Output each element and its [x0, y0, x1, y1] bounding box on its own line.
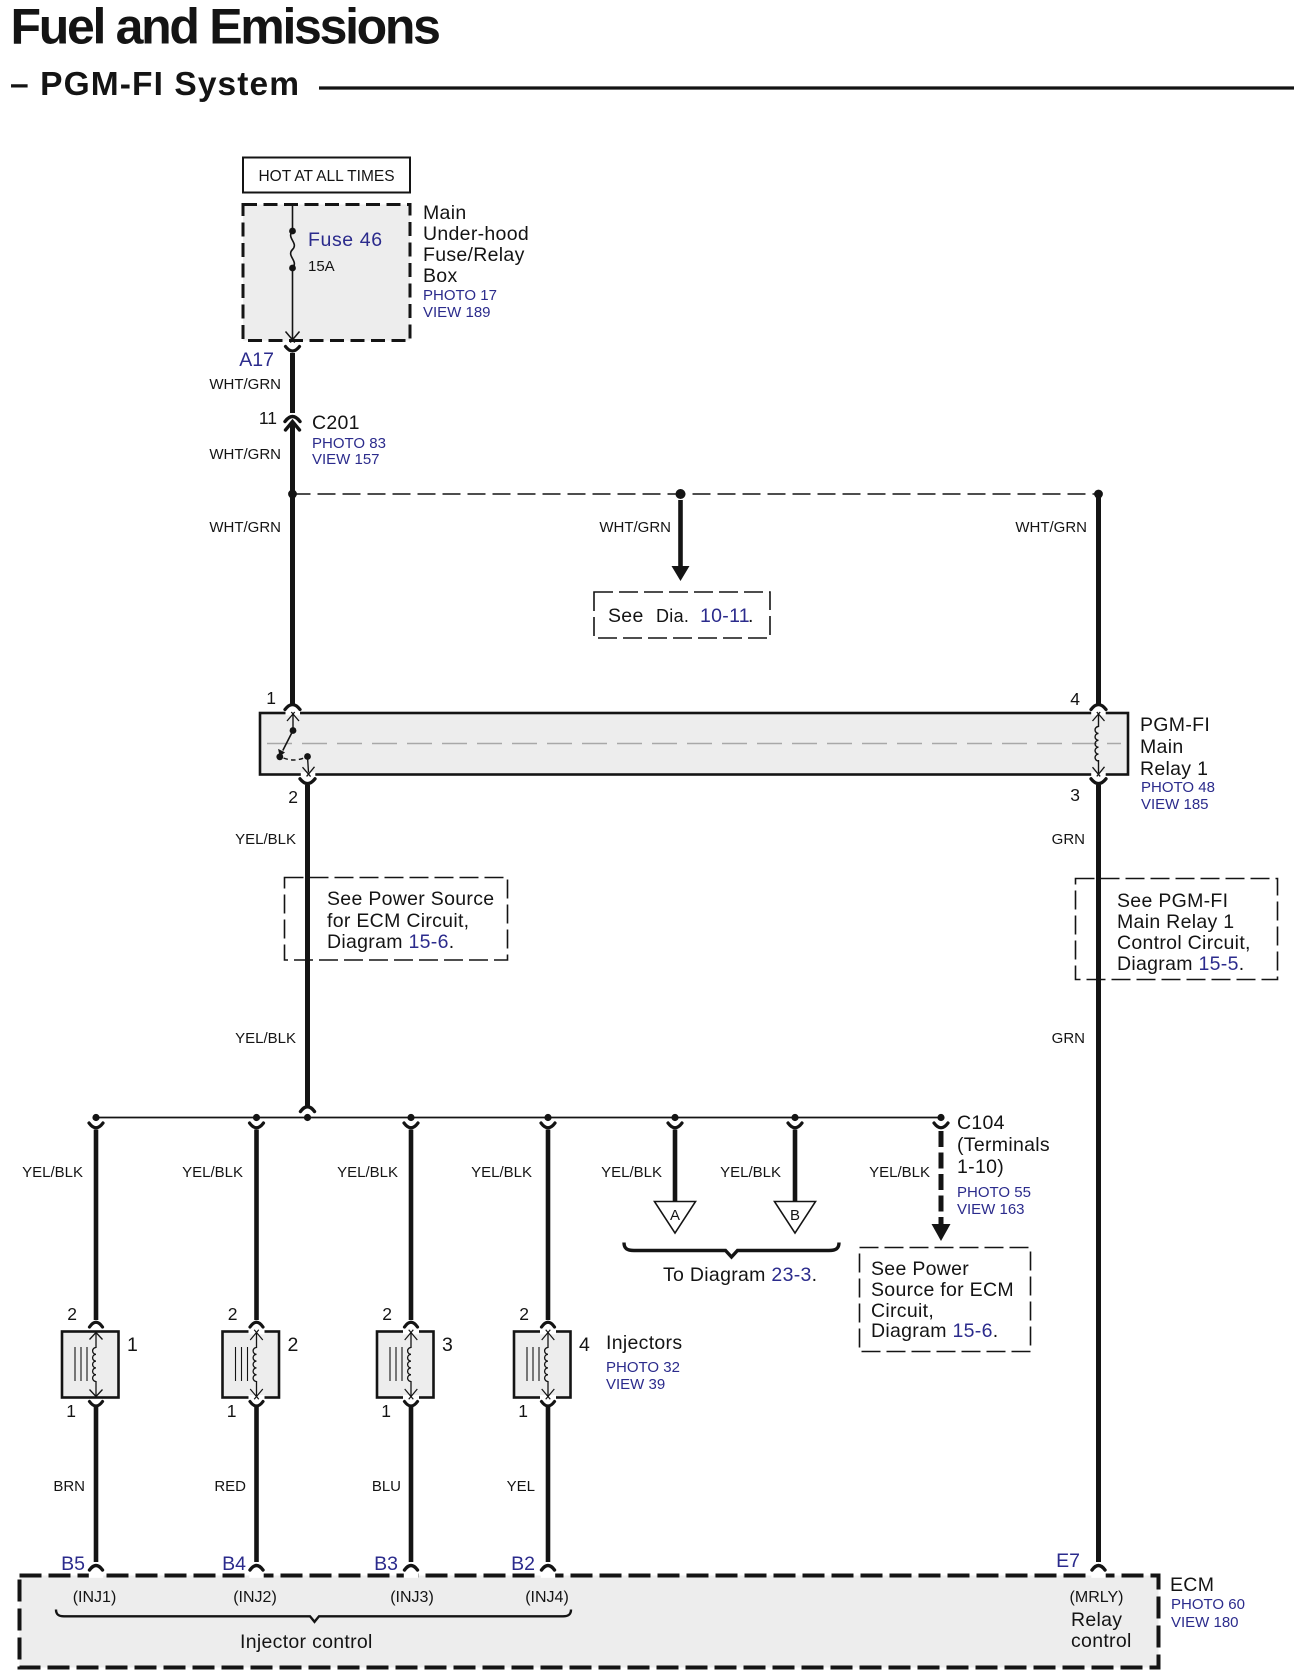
svg-text:YEL/BLK: YEL/BLK	[471, 1164, 532, 1181]
HOT AT ALL TIMES box	[243, 158, 410, 193]
ECM border notches	[89, 1573, 1106, 1578]
svg-text:PHOTO 48: PHOTO 48	[1141, 779, 1215, 796]
junction node	[288, 490, 297, 499]
terminal cup B3	[405, 1566, 418, 1571]
bus node C104	[937, 1114, 944, 1121]
svg-text:See PGM-FI: See PGM-FI	[1117, 890, 1228, 912]
bus node inj4	[544, 1114, 551, 1121]
svg-text:Circuit,: Circuit,	[871, 1300, 934, 1322]
bus node inj3	[407, 1114, 414, 1121]
svg-text:YEL/BLK: YEL/BLK	[235, 831, 296, 848]
svg-text:E7: E7	[1056, 1550, 1080, 1572]
svg-text:Fuel and Emissions: Fuel and Emissions	[11, 0, 440, 55]
wire relay pin3 to ECM E7	[1096, 785, 1101, 1562]
svg-text:Relay: Relay	[1071, 1609, 1122, 1631]
svg-text:VIEW 189: VIEW 189	[423, 304, 491, 321]
svg-text:VIEW 157: VIEW 157	[312, 451, 380, 468]
svg-text:Dia.: Dia.	[656, 606, 689, 626]
svg-text:B2: B2	[511, 1553, 535, 1575]
svg-text:Diagram 15-6.: Diagram 15-6.	[327, 931, 454, 953]
arrow to See Dia 10-11	[672, 500, 690, 581]
svg-text:PHOTO 55: PHOTO 55	[957, 1184, 1031, 1201]
See Power Source for ECM box (left)	[285, 878, 508, 961]
terminal cup drop inj4	[541, 1123, 555, 1128]
svg-text:PGM-FI: PGM-FI	[1140, 714, 1210, 736]
bus node A	[671, 1114, 678, 1121]
terminal cup B2	[542, 1566, 555, 1571]
svg-text:1: 1	[518, 1401, 528, 1421]
svg-text:PHOTO 32: PHOTO 32	[606, 1359, 680, 1376]
wire C201 to relay pin 1	[290, 424, 295, 704]
terminal cup E7	[1092, 1566, 1105, 1571]
svg-text:(INJ3): (INJ3)	[390, 1589, 434, 1606]
svg-text:See Power: See Power	[871, 1258, 969, 1280]
svg-text:2: 2	[228, 1304, 238, 1324]
svg-text:To Diagram 23-3.: To Diagram 23-3.	[663, 1264, 817, 1286]
injector 3	[377, 1322, 434, 1400]
Relay control label	[1071, 1609, 1132, 1652]
svg-text:(INJ4): (INJ4)	[525, 1589, 569, 1606]
svg-text:Main: Main	[1140, 736, 1183, 758]
relay contact pin2 arrow	[303, 753, 315, 777]
svg-text:BRN: BRN	[53, 1478, 85, 1495]
svg-text:A17: A17	[239, 349, 274, 371]
bus node main	[304, 1114, 311, 1121]
terminal cup relay pin 1	[285, 705, 300, 710]
injector 1	[62, 1322, 119, 1397]
svg-text:15A: 15A	[308, 258, 335, 275]
svg-text:WHT/GRN: WHT/GRN	[599, 519, 671, 536]
injector 4	[514, 1322, 571, 1400]
wire drop inj1	[94, 1130, 99, 1321]
node B triangle	[775, 1202, 816, 1234]
wire below fuse with arrow	[286, 268, 300, 343]
wire drop A	[673, 1130, 678, 1203]
See Power Source for ECM box (bottom)	[860, 1248, 1031, 1352]
svg-text:YEL/BLK: YEL/BLK	[869, 1164, 930, 1181]
svg-text:(Terminals: (Terminals	[957, 1134, 1050, 1156]
relay contact pin1 arrow	[287, 712, 299, 734]
svg-text:YEL/BLK: YEL/BLK	[601, 1164, 662, 1181]
Main Under-hood Fuse/Relay Box	[243, 205, 410, 341]
svg-text:YEL/BLK: YEL/BLK	[22, 1164, 83, 1181]
wire relay pin2 to bus	[305, 785, 310, 1106]
terminal cup drop inj3	[404, 1123, 418, 1128]
relay label	[1140, 714, 1215, 813]
terminal A17 (female cup)	[286, 347, 300, 352]
terminal cup B5	[90, 1566, 103, 1571]
svg-text:Main: Main	[423, 202, 466, 224]
svg-text:(MRLY): (MRLY)	[1070, 1589, 1124, 1606]
svg-text:2: 2	[519, 1304, 529, 1324]
svg-text:A: A	[670, 1207, 680, 1224]
svg-text:Injector control: Injector control	[240, 1631, 373, 1653]
terminal cup relay pin 3	[1091, 779, 1106, 784]
brace under A and B	[624, 1243, 839, 1258]
svg-text:Relay 1: Relay 1	[1140, 758, 1208, 780]
svg-text:4: 4	[1070, 689, 1080, 709]
dashed branch wire	[293, 493, 1099, 495]
injector 4 cup bottom	[542, 1402, 555, 1407]
svg-text:Injectors: Injectors	[606, 1332, 682, 1354]
svg-text:3: 3	[1070, 785, 1080, 805]
svg-text:for ECM Circuit,: for ECM Circuit,	[327, 910, 469, 932]
svg-text:Source for ECM: Source for ECM	[871, 1279, 1014, 1301]
svg-text:1: 1	[227, 1401, 237, 1421]
connector C201 (cup + arrow)	[285, 417, 300, 431]
ECM label	[1170, 1574, 1245, 1631]
Injectors label	[606, 1332, 682, 1393]
ECM box	[20, 1576, 1159, 1668]
arrow head C104	[932, 1224, 951, 1241]
relay switch dashed link	[284, 758, 305, 760]
svg-text:10-11: 10-11	[700, 605, 750, 627]
svg-text:2: 2	[67, 1304, 77, 1324]
C104 label	[957, 1112, 1050, 1218]
svg-text:YEL/BLK: YEL/BLK	[182, 1164, 243, 1181]
connector C104 cup	[934, 1123, 948, 1128]
svg-text:.: .	[748, 605, 754, 627]
terminal cup drop inj2	[250, 1123, 264, 1128]
svg-text:GRN: GRN	[1052, 1030, 1085, 1047]
svg-text:ECM: ECM	[1170, 1574, 1214, 1596]
svg-text:BLU: BLU	[372, 1478, 401, 1495]
terminal cup drop A	[668, 1123, 682, 1128]
svg-text:2: 2	[288, 787, 298, 807]
svg-text:VIEW 180: VIEW 180	[1171, 1614, 1239, 1631]
wire injector 4 to B2	[546, 1407, 551, 1562]
svg-text:Diagram 15-6.: Diagram 15-6.	[871, 1320, 998, 1342]
wire injector 2 to B4	[254, 1407, 259, 1562]
svg-text:Main Relay 1: Main Relay 1	[1117, 911, 1234, 933]
svg-text:VIEW 185: VIEW 185	[1141, 796, 1209, 813]
See Dia. 10-11 box	[594, 592, 770, 638]
injector 2 cup bottom	[250, 1402, 263, 1407]
dashed wire C104	[939, 1131, 944, 1226]
svg-text:WHT/GRN: WHT/GRN	[209, 376, 281, 393]
svg-text:See Power Source: See Power Source	[327, 888, 494, 910]
svg-text:C201: C201	[312, 412, 360, 434]
svg-text:control: control	[1071, 1630, 1132, 1652]
svg-text:GRN: GRN	[1052, 831, 1085, 848]
title rule	[319, 86, 1294, 89]
svg-text:2: 2	[288, 1334, 299, 1356]
svg-text:PHOTO 60: PHOTO 60	[1171, 1596, 1245, 1613]
wire drop inj4	[546, 1130, 551, 1321]
svg-text:Box: Box	[423, 265, 458, 287]
svg-text:WHT/GRN: WHT/GRN	[209, 519, 281, 536]
bus node inj2	[253, 1114, 260, 1121]
svg-text:C104: C104	[957, 1112, 1005, 1134]
svg-text:See: See	[608, 605, 644, 627]
svg-text:YEL/BLK: YEL/BLK	[337, 1164, 398, 1181]
junction node right	[1094, 490, 1103, 499]
wire WHT/GRN from A17 to C201	[290, 353, 295, 413]
svg-text:B: B	[790, 1207, 800, 1224]
svg-text:– PGM-FI System: – PGM-FI System	[10, 66, 300, 103]
svg-text:B5: B5	[61, 1553, 85, 1575]
node A triangle	[655, 1202, 696, 1234]
svg-text:Under-hood: Under-hood	[423, 223, 529, 245]
C201 label	[312, 412, 386, 468]
svg-text:(INJ1): (INJ1)	[73, 1589, 117, 1606]
fuse box label	[423, 202, 529, 321]
relay border notches	[286, 711, 1106, 776]
wire drop B	[793, 1130, 798, 1203]
svg-text:RED: RED	[214, 1478, 246, 1495]
injector 3 cup bottom	[405, 1402, 418, 1407]
svg-text:1: 1	[127, 1334, 138, 1356]
injector 2	[223, 1322, 280, 1400]
terminal cup drop B	[788, 1123, 802, 1128]
relay K1 PGM-FI Main Relay 1	[260, 713, 1128, 775]
svg-text:PHOTO 83: PHOTO 83	[312, 435, 386, 452]
svg-text:B4: B4	[222, 1553, 246, 1575]
bus wire	[96, 1117, 941, 1119]
terminal cup relay pin 4	[1091, 705, 1106, 710]
svg-text:3: 3	[442, 1334, 453, 1356]
svg-text:Control Circuit,: Control Circuit,	[1117, 932, 1251, 954]
svg-text:2: 2	[382, 1304, 392, 1324]
svg-text:YEL: YEL	[507, 1478, 535, 1495]
terminal cup at bus feed	[301, 1107, 315, 1112]
bus node inj1	[92, 1114, 99, 1121]
relay coil L1	[1093, 712, 1105, 776]
svg-text:(INJ2): (INJ2)	[233, 1589, 277, 1606]
svg-text:11: 11	[259, 408, 277, 428]
relay switch arm	[276, 731, 293, 761]
svg-text:HOT AT ALL TIMES: HOT AT ALL TIMES	[258, 168, 394, 185]
junction node mid	[676, 489, 686, 499]
terminal cup B4	[250, 1566, 263, 1571]
svg-text:Diagram 15-5.: Diagram 15-5.	[1117, 953, 1244, 975]
terminal cup relay pin 2	[300, 779, 315, 784]
bus node B	[791, 1114, 798, 1121]
svg-text:Fuse/Relay: Fuse/Relay	[423, 244, 525, 266]
svg-text:WHT/GRN: WHT/GRN	[209, 446, 281, 463]
fuse 46 element	[289, 228, 296, 272]
brace injector control	[56, 1610, 571, 1622]
wire to relay pin 4	[1096, 494, 1101, 705]
svg-text:1-10): 1-10)	[957, 1156, 1004, 1178]
svg-text:Fuse 46: Fuse 46	[308, 229, 383, 251]
svg-text:WHT/GRN: WHT/GRN	[1015, 519, 1087, 536]
svg-text:YEL/BLK: YEL/BLK	[720, 1164, 781, 1181]
injector 1 cup bottom	[90, 1402, 103, 1407]
svg-text:PHOTO 17: PHOTO 17	[423, 287, 497, 304]
wire injector 1 to B5	[94, 1407, 99, 1562]
wire drop inj3	[409, 1130, 414, 1321]
svg-text:1: 1	[66, 1401, 76, 1421]
wire drop inj2	[254, 1130, 259, 1321]
svg-text:VIEW 39: VIEW 39	[606, 1376, 665, 1393]
svg-text:B3: B3	[374, 1553, 398, 1575]
svg-text:1: 1	[266, 688, 276, 708]
svg-text:VIEW 163: VIEW 163	[957, 1201, 1025, 1218]
fuse F46 wire	[292, 206, 294, 231]
svg-text:1: 1	[381, 1401, 391, 1421]
wire injector 3 to B3	[409, 1407, 414, 1562]
svg-text:YEL/BLK: YEL/BLK	[235, 1030, 296, 1047]
terminal cup drop inj1	[89, 1123, 103, 1128]
See PGM-FI Main Relay 1 Control box (right)	[1076, 879, 1278, 980]
svg-text:4: 4	[579, 1334, 590, 1356]
